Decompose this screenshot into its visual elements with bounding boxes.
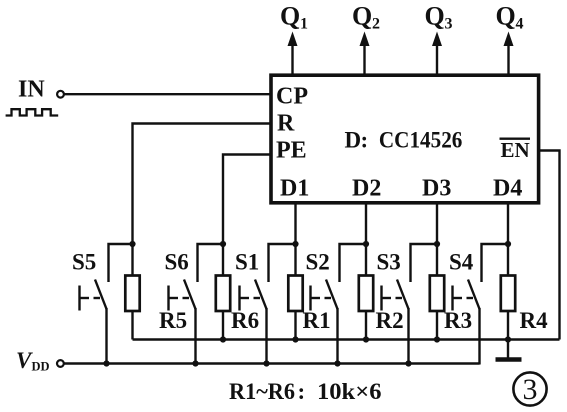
node label Q4 [496, 2, 524, 33]
svg-text:S5: S5 [72, 250, 96, 275]
svg-text:S3: S3 [377, 250, 401, 275]
junction on ground bus at x=223 [220, 336, 226, 342]
svg-text:10k×6: 10k×6 [317, 379, 382, 404]
resistor R5 (10k) [125, 244, 139, 340]
pushbutton switch S6 [169, 244, 224, 311]
pushbutton switch S1 [240, 244, 296, 311]
junction on ground bus at x=437 [434, 336, 440, 342]
svg-text:S2: S2 [306, 250, 330, 275]
wire S1 bottom terminal to VDD bus [265, 308, 267, 365]
junction node D4/S4/R4 [505, 241, 511, 247]
svg-text:Q: Q [280, 2, 300, 31]
junction node R-pin/S5/R5 [129, 241, 135, 247]
svg-text:R1: R1 [303, 308, 331, 333]
pushbutton switch S2 [311, 244, 367, 311]
svg-text:V: V [16, 348, 33, 373]
power label VDD [16, 348, 50, 374]
pushbutton switch S4 [453, 244, 509, 311]
node label Q3 [425, 2, 453, 33]
wire D2 pin down to junction [365, 202, 367, 244]
figure number circled 3 [513, 372, 546, 406]
svg-text:3: 3 [445, 16, 453, 33]
svg-text:Q: Q [352, 2, 372, 31]
ground symbol [496, 340, 522, 360]
wire S3 bottom terminal to VDD bus [407, 308, 409, 365]
output arrow Q4 [504, 32, 514, 76]
resistor R2 (10k) [359, 244, 373, 340]
wire S4 bottom terminal to VDD bus [478, 308, 480, 365]
svg-text:4: 4 [516, 16, 524, 33]
svg-text:R5: R5 [159, 308, 187, 333]
svg-text:CP: CP [276, 84, 308, 110]
junction on VDD bus at x=195.5 [192, 360, 198, 366]
svg-text:R6: R6 [231, 308, 259, 333]
wire S5 bottom terminal to VDD bus [105, 308, 107, 365]
svg-text:Q: Q [425, 2, 445, 31]
svg-text:D: D [345, 128, 362, 153]
junction on VDD bus at x=266.5 [263, 360, 269, 366]
svg-text:Q: Q [496, 2, 516, 31]
svg-text:R2: R2 [376, 308, 404, 333]
svg-text:R4: R4 [520, 308, 549, 333]
pushbutton switch S5 [80, 244, 133, 311]
resistor R3 (10k) [430, 244, 444, 340]
op-amp-style IC box U1 (counter CC14526) [271, 75, 539, 203]
junction node D2/S2/R2 [363, 241, 369, 247]
svg-text:PE: PE [276, 138, 307, 164]
junction on VDD bus at x=106.5 [103, 360, 109, 366]
output arrow Q2 [360, 32, 370, 76]
junction node PE/S6/R6 [220, 241, 226, 247]
output arrow Q1 [288, 32, 298, 76]
resistor R4 (10k) [501, 244, 515, 340]
svg-text:D4: D4 [493, 176, 522, 202]
output arrow Q3 [432, 32, 442, 76]
svg-text::: : [298, 379, 306, 404]
pin label EN (active low) with overbar [500, 138, 531, 162]
svg-text:R3: R3 [444, 308, 472, 333]
wire D1 pin down to junction [294, 202, 296, 244]
junction on ground bus at x=508 [505, 336, 511, 342]
wire EN pin to ground bus [539, 151, 560, 340]
junction on VDD bus at x=408.5 [405, 360, 411, 366]
svg-text:D1: D1 [280, 176, 309, 202]
input terminal circle (IN) [57, 91, 64, 98]
IC type label D: CC14526 [345, 128, 463, 153]
wire R pin to S5/R5 junction [133, 124, 272, 245]
svg-text:2: 2 [372, 16, 380, 33]
svg-text:1: 1 [300, 16, 308, 33]
value label R1~R6: 10k x 6 [229, 379, 382, 404]
power rail VDD bus [64, 362, 480, 364]
svg-text:EN: EN [501, 138, 530, 162]
svg-text:DD: DD [32, 360, 50, 374]
junction node D1/S1/R1 [292, 241, 298, 247]
power terminal circle VDD [57, 360, 64, 367]
wire IN to CP pin [64, 93, 271, 95]
junction on VDD bus at x=337.5 [334, 360, 340, 366]
clock waveform symbol [6, 109, 59, 115]
wire S6 bottom terminal to VDD bus [194, 308, 196, 365]
svg-text:3: 3 [523, 373, 538, 406]
svg-text:D2: D2 [352, 176, 381, 202]
resistor R1 (10k) [288, 244, 302, 340]
svg-text:D3: D3 [422, 176, 451, 202]
node label Q2 [352, 2, 380, 33]
svg-text:CC14526: CC14526 [379, 128, 463, 153]
junction on ground bus at x=366 [363, 336, 369, 342]
svg-text:S6: S6 [165, 250, 189, 275]
node label Q1 [280, 2, 308, 33]
svg-text:S4: S4 [449, 250, 474, 275]
wire PE pin to S6/R6 junction [223, 155, 271, 245]
junction on ground bus at x=295.5 [292, 336, 298, 342]
resistor R6 (10k) [216, 244, 230, 340]
svg-text:R1~R6: R1~R6 [229, 379, 295, 404]
pushbutton switch S3 [382, 244, 438, 311]
svg-text:S1: S1 [235, 250, 259, 275]
svg-text::: : [361, 128, 369, 153]
wire D4 pin down to junction [507, 202, 509, 244]
wire ground bus (resistor commons to EN and ground) [133, 338, 560, 340]
svg-text:IN: IN [18, 77, 45, 103]
junction node D3/S3/R3 [434, 241, 440, 247]
svg-text:R: R [277, 111, 295, 137]
wire D3 pin down to junction [436, 202, 438, 244]
wire S2 bottom terminal to VDD bus [336, 308, 338, 365]
